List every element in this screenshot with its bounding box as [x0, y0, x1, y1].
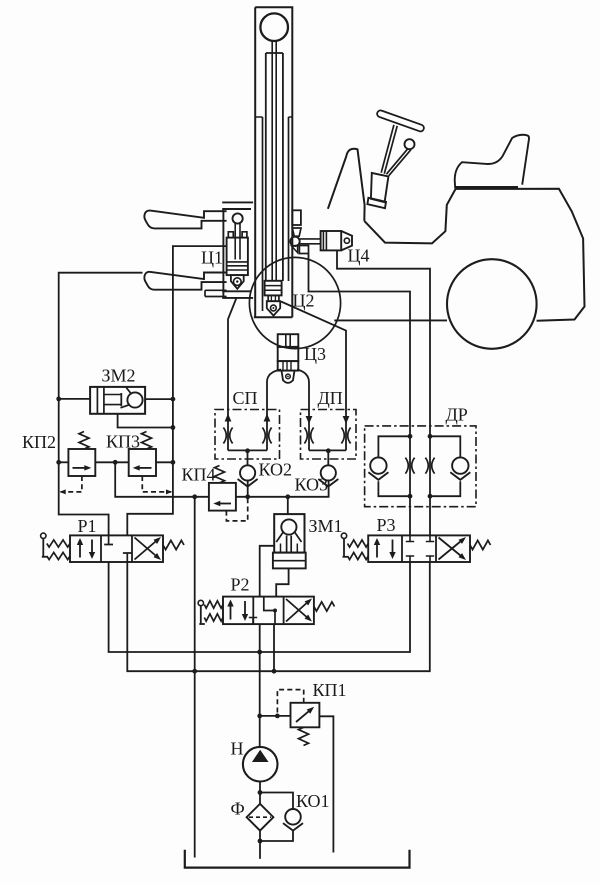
valve R2 lever and springs	[198, 600, 203, 605]
cylinder Ts1 bottom mount	[231, 275, 244, 289]
svg-text:Ф: Ф	[231, 799, 245, 819]
svg-text:Ц4: Ц4	[348, 246, 370, 266]
tractor hood panel	[328, 149, 365, 221]
svg-text:КП3: КП3	[106, 432, 140, 452]
DP throttles	[304, 428, 307, 444]
check valve KO3	[321, 465, 336, 480]
detail zoom circle	[249, 257, 340, 348]
valve R3 lever and springs	[341, 533, 346, 538]
svg-text:Р2: Р2	[231, 575, 250, 595]
wire bus drop to KP4	[115, 462, 209, 497]
wire tank bus line2 R1-R3	[127, 562, 430, 671]
tank	[185, 850, 410, 868]
wire filter bypass via KO1	[260, 793, 293, 810]
svg-text:ДП: ДП	[318, 388, 343, 408]
directional valve R3 body	[368, 535, 470, 562]
wire tank return line	[194, 497, 196, 858]
valve R3 center section	[406, 535, 414, 541]
wire pump to KP1	[260, 715, 291, 717]
cylinder Ts3 bottom mount	[282, 371, 295, 383]
cylinder Ts1 rod	[234, 223, 236, 259]
svg-text:КО2: КО2	[259, 460, 293, 480]
steering column	[381, 125, 394, 173]
svg-text:Ц2: Ц2	[293, 291, 315, 311]
wire KP2 left	[59, 461, 69, 463]
tractor body outline	[456, 189, 585, 321]
wire KP2 to KP3	[95, 461, 128, 463]
DR throttles	[405, 458, 408, 474]
svg-text:ДР: ДР	[446, 405, 468, 425]
cylinder Ts4 rod ball	[290, 237, 299, 246]
valve R2 right spring	[314, 602, 335, 611]
svg-text:Ц3: Ц3	[304, 344, 326, 364]
valve R1 right spring	[163, 540, 184, 549]
fork carriage plate	[222, 209, 224, 298]
filter F	[247, 804, 274, 831]
lift cylinder rod	[271, 41, 273, 281]
SP block boundary	[215, 410, 280, 460]
wire KP3 right	[156, 461, 173, 463]
DP right line from Ts2	[281, 302, 346, 451]
wire KP1 to tank	[319, 716, 333, 852]
wire pump to filter	[259, 782, 261, 804]
valve R1 center section	[104, 535, 113, 544]
mast top pulley	[260, 13, 288, 41]
svg-text:КП1: КП1	[313, 680, 347, 700]
cylinder Ts1 rod ball	[233, 213, 243, 223]
pump N	[243, 747, 278, 782]
SP left line from carriage	[228, 299, 236, 451]
upper fork prong	[144, 211, 226, 229]
wire cylinder Ts1 to ZM2 net	[127, 246, 226, 535]
relief valve KP3	[129, 449, 156, 476]
mast inner rails	[262, 117, 264, 311]
cylinder Ts3 body	[278, 347, 299, 361]
directional valve R1 body	[70, 535, 163, 562]
SP right line from Ts3	[267, 370, 281, 451]
wire R2 port A to ZM1 side port	[260, 546, 275, 597]
valve R3 arrows section	[376, 543, 378, 558]
cylinder Ts2 piston	[265, 281, 282, 296]
console pedestal	[371, 173, 389, 202]
directional valve R2 body	[223, 597, 314, 625]
cylinder Ts4 mast bracket	[292, 210, 301, 225]
cylinder Ts4 rod	[300, 238, 321, 240]
SP throttles	[223, 428, 226, 444]
cylinder Ts3 rod end	[278, 334, 299, 347]
SP flow arrows up	[225, 414, 232, 422]
DP flow arrows down	[306, 416, 313, 424]
DR right bypass branch with check valve	[430, 436, 460, 457]
svg-text:КО3: КО3	[295, 475, 329, 495]
check valve KO2	[240, 465, 255, 480]
dashed pilot line KP1	[277, 690, 303, 714]
wire Ts4 rod side to DR left line	[309, 254, 411, 536]
valve R3 crossed section	[439, 539, 464, 560]
valve R1 lever and springs	[41, 533, 46, 538]
valve R2 center section	[264, 597, 275, 625]
dashed pilot line KP4	[226, 499, 247, 521]
tractor rear wheel	[447, 259, 537, 349]
tractor steering wheel	[381, 114, 421, 128]
wire ZM2 left port	[59, 398, 90, 400]
tractor seat	[455, 135, 529, 189]
mast outer rails	[255, 7, 292, 317]
svg-text:ЗМ1: ЗМ1	[309, 516, 343, 536]
relief valve KP2	[68, 449, 95, 476]
wire filter to tank	[259, 831, 261, 859]
svg-text:Р1: Р1	[78, 516, 97, 536]
wire pressure bus line1 R1-R3	[109, 562, 410, 652]
cylinder Ts4 ball bracket	[299, 246, 308, 254]
relief valve KP4	[209, 483, 236, 511]
DP left line from Ts3	[297, 370, 309, 451]
DP bottom bar	[309, 449, 346, 451]
tractor chassis line	[334, 319, 447, 321]
svg-text:КП2: КП2	[22, 432, 56, 452]
DR junction dots	[408, 434, 413, 439]
svg-text:СП: СП	[233, 388, 258, 408]
DR left bypass branch with check valve	[378, 436, 410, 457]
wire pump pressure riser	[259, 624, 261, 747]
lower fork prong	[144, 272, 226, 290]
dashed pilot line KP3	[142, 476, 171, 492]
wire R2 port to tank bus	[273, 624, 275, 671]
control lever with knob	[405, 139, 415, 149]
svg-text:ЗМ2: ЗМ2	[102, 366, 136, 386]
wire Ts4 cap side to DR right line	[337, 250, 430, 535]
valve R2 arrows section	[230, 605, 232, 620]
cylinder Ts3 piston end	[278, 361, 299, 371]
cylinder Ts4 body	[321, 231, 342, 250]
wire ZM2 right port	[145, 398, 173, 400]
wire ZM2 bottom port	[118, 414, 173, 428]
cylinder Ts4 cap cone	[341, 231, 352, 250]
wire KP4 to KO3 bus	[236, 481, 329, 497]
relief valve KP1	[291, 703, 320, 728]
svg-text:Р3: Р3	[377, 515, 396, 535]
svg-text:КО1: КО1	[296, 791, 330, 811]
svg-text:Н: Н	[231, 739, 244, 759]
dashed pilot line KP2	[61, 476, 82, 492]
valve R3 right spring	[470, 540, 491, 549]
wire left frame to valve R1 port A	[59, 273, 143, 536]
wire KO3 to DP block	[327, 451, 329, 466]
svg-text:КП4: КП4	[182, 465, 216, 485]
DR block boundary	[365, 426, 476, 507]
hydraulic lock ZM1	[274, 514, 304, 553]
SP bottom bar	[228, 449, 267, 451]
valve R1 crossed section	[135, 539, 159, 560]
lift cylinder barrel in mast	[266, 53, 283, 281]
wire KO2 to SP block	[247, 451, 249, 466]
cylinder Ts2 bottom mount	[267, 301, 280, 315]
svg-text:Ц1: Ц1	[201, 248, 223, 268]
wire bus to ZM1	[287, 497, 289, 514]
check valve KO1	[285, 809, 301, 825]
cylinder Ts1 body	[227, 238, 248, 276]
hydraulic lock ZM2	[90, 387, 145, 414]
DP block boundary	[301, 410, 357, 460]
valve R2 crossed section	[286, 601, 310, 622]
wire KO2 to bus	[247, 481, 249, 497]
wire ZM1 bottom to R2 port B	[276, 568, 288, 596]
valve R1 arrows section	[79, 543, 81, 558]
